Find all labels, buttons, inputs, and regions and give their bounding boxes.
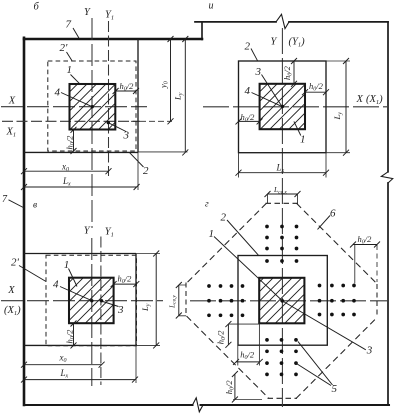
svg-text:(X1): (X1)	[4, 305, 21, 317]
svg-text:1: 1	[67, 64, 73, 76]
svg-text:h0/2: h0/2	[64, 135, 76, 150]
svg-text:2: 2	[143, 165, 149, 177]
svg-text:7: 7	[66, 18, 72, 30]
piles 5: bottom group	[265, 338, 298, 376]
svg-text:h0/2: h0/2	[215, 330, 227, 345]
column 1 hatched (fig в)	[69, 278, 114, 324]
axis X1 (fig б)	[2, 120, 140, 122]
piles 5: top group	[265, 225, 298, 263]
extension line X1 axis to y0 dimension	[131, 120, 172, 122]
svg-text:X: X	[7, 285, 15, 296]
extension line pile column up to h0/2 dimension	[354, 245, 356, 284]
axis X=X1 (fig в)	[1, 300, 163, 302]
break symbol bottom	[193, 398, 204, 412]
svg-text:3: 3	[117, 304, 124, 316]
svg-text:h0/2: h0/2	[118, 274, 133, 286]
extension lines slab corners to Ly dimension	[326, 61, 350, 153]
extension line right cut up to h0/2 dimension	[376, 245, 378, 282]
svg-text:h0/2: h0/2	[64, 329, 76, 344]
svg-text:h0/2: h0/2	[240, 350, 255, 362]
break symbol right	[381, 172, 393, 183]
column 1 hatched (fig б)	[70, 84, 116, 130]
svg-text:б: б	[34, 1, 40, 12]
extension lines slab corners to Lx dimension	[239, 153, 327, 178]
svg-text:3: 3	[255, 66, 262, 78]
svg-text:г: г	[205, 200, 209, 210]
node: point 3 (fig в)	[100, 299, 103, 302]
foundation slab outline (fig и)	[239, 61, 327, 153]
column 1 hatched (fig и)	[260, 84, 305, 129]
pyramid apex cut: bottom dashed segment	[268, 397, 298, 399]
svg-text:4: 4	[55, 86, 61, 98]
slab edge right with break	[387, 22, 389, 405]
pyramid apex cut: left vertical dashed segment	[185, 283, 187, 317]
piles 5: left group	[207, 284, 244, 317]
node: column centre point 4 (fig б)	[91, 105, 94, 108]
svg-text:2: 2	[221, 211, 227, 223]
foundation outline bottom edge (fig в)	[24, 344, 136, 346]
extension line foundation right edge downward (fig в)	[135, 345, 137, 383]
extension line foundation bottom to Ly dimension	[138, 151, 188, 153]
wall border top of fig б	[24, 38, 202, 41]
svg-text:h0/2: h0/2	[358, 234, 373, 246]
svg-text:(X1): (X1)	[366, 94, 383, 106]
pile cap outline (fig г)	[238, 256, 327, 346]
svg-text:2: 2	[245, 40, 251, 52]
wall border left	[23, 38, 26, 405]
dashed punching contour 2' (fig в)	[46, 255, 137, 345]
punching pyramid dashed contour 6: top-left edge	[187, 203, 267, 283]
axis Y (fig б)	[91, 18, 93, 228]
axis Y1 (fig б)	[108, 21, 110, 176]
svg-text:h0/2: h0/2	[224, 380, 236, 395]
axis Y1 (fig в)	[100, 237, 102, 386]
punching pyramid dashed contour: top-right edge	[297, 203, 378, 283]
axis X (fig б)	[1, 106, 147, 108]
axis X=X1 (fig и)	[203, 106, 387, 108]
extension line foundation right edge downward	[137, 152, 139, 190]
extension lines foundation corners to Ly dimension (fig в)	[136, 254, 160, 346]
foundation outline right edge (fig в)	[135, 254, 137, 346]
svg-text:и: и	[209, 1, 214, 12]
svg-text:3: 3	[366, 345, 373, 357]
node: point 3 (fig б)	[107, 121, 110, 124]
node: column centre point (fig г)	[281, 299, 285, 303]
svg-text:1: 1	[209, 228, 215, 240]
extension line bottom cut level to h0/2 dimension	[233, 399, 262, 401]
node: column centre point 4 (fig в)	[90, 299, 93, 302]
axis Y=Y1 (fig и and г)	[281, 28, 283, 407]
slab edge top of fig и with break	[195, 21, 388, 23]
foundation outline right edge (fig б)	[137, 39, 139, 152]
svg-text:4: 4	[245, 85, 251, 97]
svg-text:4: 4	[53, 279, 59, 291]
svg-text:(Y1): (Y1)	[289, 37, 306, 49]
pyramid apex cut: right vertical dashed segment	[376, 284, 378, 318]
svg-text:X: X	[8, 96, 16, 107]
pyramid apex cut: top dashed segment	[266, 202, 300, 204]
column 1 hatched (fig г)	[259, 278, 304, 324]
svg-text:h0/2: h0/2	[282, 65, 294, 80]
step between fig б and fig и	[201, 22, 203, 40]
svg-text:в: в	[33, 201, 37, 211]
foundation outline top edge (fig в)	[24, 253, 136, 255]
foundation outline bottom edge (fig б)	[24, 151, 138, 153]
node: centre point 3=4 (fig и)	[281, 105, 284, 108]
break symbol top	[276, 14, 289, 28]
axis X (fig г)	[190, 300, 387, 302]
axis Y (fig в)	[91, 238, 93, 386]
wall border bottom with break	[24, 404, 389, 406]
punching pyramid dashed contour: bottom-right edge	[296, 318, 377, 399]
svg-text:2': 2'	[11, 257, 20, 269]
extension lines for bottom h0/2 dimension	[238, 324, 260, 366]
svg-text:X: X	[356, 94, 364, 105]
punching pyramid dashed contour: bottom-left edge	[187, 316, 270, 399]
svg-text:h0/2: h0/2	[309, 81, 324, 93]
dashed punching contour 2' (fig б)	[48, 61, 136, 151]
extension line column bottom edge to left h0/2 dimension	[228, 323, 259, 325]
piles 5: right group	[318, 284, 356, 317]
svg-text:6: 6	[330, 207, 336, 219]
